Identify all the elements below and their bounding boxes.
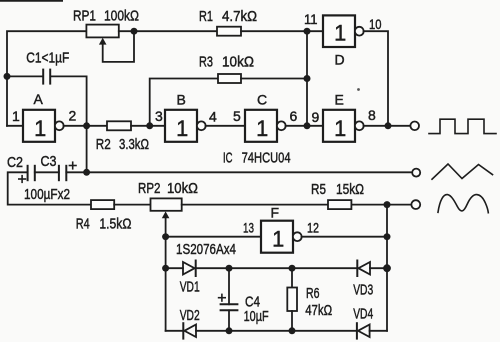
- wire F output to right vertical: [302, 236, 388, 238]
- resistor R4: [91, 200, 114, 209]
- wire wiper node to F input: [166, 236, 261, 238]
- svg-text:E: E: [335, 92, 344, 108]
- svg-text:R6: R6: [306, 286, 320, 302]
- node C4 top junction: [226, 265, 233, 272]
- wire right vertical: [386, 205, 388, 331]
- svg-text:12: 12: [307, 220, 319, 236]
- svg-text:C: C: [257, 92, 267, 108]
- inverter U1C: [245, 110, 277, 142]
- svg-text:10kΩ: 10kΩ: [167, 181, 198, 197]
- svg-text:R3: R3: [199, 55, 213, 71]
- svg-text:4: 4: [209, 109, 217, 125]
- wire RP2 to R5: [182, 204, 328, 206]
- svg-text:100µFx2: 100µFx2: [24, 187, 70, 203]
- wire VD4 to right vertical: [370, 330, 387, 332]
- svg-text:D: D: [335, 52, 345, 68]
- svg-text:R1: R1: [199, 9, 213, 25]
- terminal sine-wave output: [411, 200, 420, 209]
- svg-text:VD4: VD4: [353, 306, 373, 322]
- svg-text:VD1: VD1: [180, 280, 200, 296]
- svg-text:RP2: RP2: [138, 181, 161, 197]
- wire R2 to B input: [131, 125, 165, 127]
- wire VD2 to VD4: [196, 330, 356, 332]
- node F output junction: [384, 233, 391, 240]
- svg-text:1: 1: [256, 116, 268, 141]
- node diode row left junction: [162, 265, 169, 272]
- wire diode top row: [166, 267, 183, 269]
- wire R3 to pin9 vertical: [241, 78, 307, 80]
- svg-text:1: 1: [334, 116, 346, 141]
- wire RP1 to R1: [119, 30, 217, 32]
- svg-text:1S2076Ax4: 1S2076Ax4: [176, 242, 236, 258]
- potentiometer RP2: [151, 198, 182, 210]
- wire VD3 to right vertical: [370, 267, 387, 269]
- node square output junction: [385, 122, 392, 129]
- node R3 right junction: [304, 75, 311, 82]
- svg-text:11: 11: [304, 11, 318, 27]
- svg-text:1: 1: [334, 20, 346, 45]
- capacitor C2: [28, 166, 35, 180]
- wire C output to E input: [286, 125, 324, 127]
- wire R4 to RP2: [114, 204, 150, 206]
- svg-text:RP1: RP1: [73, 9, 96, 25]
- wire R5 to sine terminal: [351, 204, 411, 206]
- capacitor C4: [228, 268, 230, 304]
- wire C2 left to R4 row: [8, 172, 91, 204]
- RP2 wiper arrow: [162, 211, 170, 218]
- node C1 left junction: [4, 73, 11, 80]
- node sine output junction: [384, 201, 391, 208]
- svg-text:R5: R5: [311, 182, 326, 198]
- inverter U1B: [165, 110, 197, 142]
- node R6 top junction: [289, 265, 296, 272]
- wire R1 to D input: [241, 30, 323, 32]
- svg-text:1: 1: [34, 116, 46, 141]
- wire VD1 to VD3: [197, 267, 357, 269]
- svg-text:10kΩ: 10kΩ: [222, 55, 254, 71]
- scan speck artifact: [357, 88, 360, 91]
- scan artifact top edge line: [0, 0, 62, 2]
- node pin11 junction: [304, 28, 311, 35]
- svg-text:5: 5: [233, 108, 241, 124]
- resistor R3: [218, 74, 241, 83]
- node diode row right junction: [383, 264, 391, 272]
- wire top-left corner to RP1: [7, 31, 86, 126]
- svg-text:3: 3: [155, 108, 163, 124]
- node R6 bottom junction: [289, 327, 296, 334]
- RP1 wiper arrow: [99, 38, 107, 45]
- svg-text:1: 1: [176, 116, 188, 141]
- resistor R5: [328, 200, 351, 209]
- inverter U1A: [23, 110, 55, 142]
- svg-text:100kΩ: 100kΩ: [104, 9, 139, 25]
- wire RP2 wiper down to bottom row: [165, 218, 167, 331]
- node pin9 junction: [304, 122, 311, 129]
- node feedback junction: [83, 122, 90, 129]
- resistor R1: [217, 27, 241, 36]
- wire C2-C3 gap: [35, 171, 59, 173]
- wire C1 right lead down to node: [50, 76, 86, 172]
- wire B output to C input: [206, 125, 246, 127]
- terminal triangle-wave output: [412, 169, 420, 177]
- svg-text:47kΩ: 47kΩ: [305, 303, 332, 319]
- svg-text:13: 13: [243, 220, 254, 236]
- svg-text:1: 1: [12, 108, 20, 124]
- C4 plus sign: [219, 294, 226, 301]
- wire D output down to E output node: [364, 31, 389, 126]
- svg-text:4.7kΩ: 4.7kΩ: [222, 9, 257, 25]
- resistor R6: [291, 268, 293, 287]
- svg-text:6: 6: [290, 108, 298, 124]
- svg-text:2: 2: [69, 108, 77, 124]
- svg-text:A: A: [34, 91, 44, 107]
- svg-text:15kΩ: 15kΩ: [336, 182, 364, 198]
- wire C1 left lead: [7, 75, 43, 77]
- diode VD2: [182, 323, 184, 338]
- terminal square-wave output: [410, 122, 419, 131]
- resistor R2: [107, 121, 131, 130]
- svg-text:VD2: VD2: [180, 308, 200, 324]
- node F input junction: [162, 233, 169, 240]
- svg-text:1: 1: [272, 227, 284, 252]
- svg-text:8: 8: [368, 107, 376, 123]
- svg-text:R4: R4: [76, 217, 90, 233]
- diode VD3: [356, 261, 358, 277]
- svg-text:74HCU04: 74HCU04: [242, 150, 291, 166]
- svg-text:IC: IC: [223, 150, 233, 166]
- capacitor C1: [43, 70, 50, 84]
- C3 plus sign: [69, 162, 76, 169]
- diode VD4: [356, 323, 358, 338]
- svg-text:C2: C2: [7, 155, 23, 171]
- svg-text:B: B: [177, 92, 186, 108]
- svg-text:1.5kΩ: 1.5kΩ: [99, 217, 131, 233]
- node pin3 junction: [146, 122, 153, 129]
- C2 plus sign: [19, 176, 26, 183]
- wire vertical pin11 to pin9: [306, 31, 308, 126]
- capacitor C3: [59, 166, 66, 180]
- wire bottom row: [166, 330, 184, 332]
- wire E output to square terminal: [364, 125, 411, 127]
- wire RP1 wiper loop: [103, 31, 134, 62]
- svg-text:C3: C3: [41, 154, 57, 170]
- svg-text:10: 10: [369, 16, 382, 32]
- node C4 bottom junction: [226, 327, 233, 334]
- wire A input pin 1: [7, 125, 23, 127]
- svg-text:VD3: VD3: [353, 283, 373, 299]
- svg-text:3.3kΩ: 3.3kΩ: [119, 137, 149, 153]
- diode VD1: [183, 262, 195, 275]
- inverter U1D: [323, 15, 355, 47]
- waveform square: [429, 119, 496, 133]
- waveform triangle: [432, 164, 493, 179]
- node RP1 right junction: [131, 28, 138, 35]
- inverter U1F: [261, 221, 293, 253]
- waveform sine: [438, 195, 488, 213]
- wire C3 to triangle terminal: [66, 171, 412, 173]
- node C3 junction: [83, 169, 90, 176]
- inverter U1E: [323, 110, 355, 142]
- svg-text:9: 9: [312, 109, 320, 125]
- svg-text:F: F: [271, 205, 280, 221]
- wire R3 left vertical tap: [150, 79, 218, 126]
- wire A output to R2: [64, 125, 108, 127]
- svg-text:10µF: 10µF: [244, 309, 269, 325]
- svg-text:R2: R2: [96, 137, 111, 153]
- svg-text:C1<1µF: C1<1µF: [26, 50, 69, 66]
- potentiometer RP1: [86, 25, 118, 38]
